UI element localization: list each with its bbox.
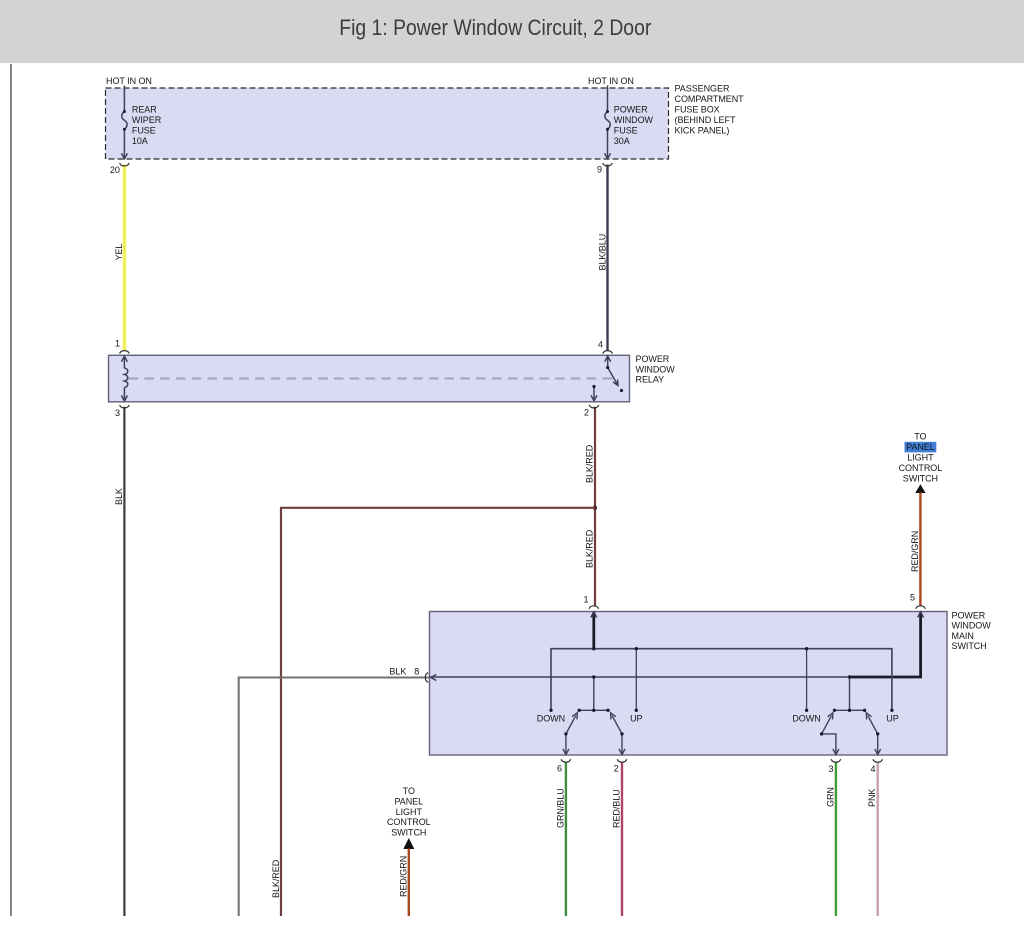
- svg-text:4: 4: [598, 340, 603, 350]
- svg-text:4: 4: [871, 764, 876, 774]
- svg-text:GRN/BLU: GRN/BLU: [555, 788, 565, 828]
- svg-text:SWITCH: SWITCH: [391, 827, 426, 837]
- svg-text:SWITCH: SWITCH: [903, 473, 938, 483]
- svg-text:KICK PANEL): KICK PANEL): [675, 126, 730, 136]
- svg-text:POWER: POWER: [636, 354, 670, 364]
- svg-text:BLK/RED: BLK/RED: [585, 444, 595, 483]
- svg-text:TO: TO: [403, 786, 415, 796]
- svg-text:RED/BLU: RED/BLU: [612, 789, 622, 828]
- svg-text:PNK: PNK: [867, 789, 877, 807]
- svg-text:3: 3: [115, 408, 120, 418]
- svg-text:WIPER: WIPER: [132, 115, 162, 125]
- svg-text:TO: TO: [914, 431, 926, 441]
- svg-text:GRN: GRN: [825, 787, 835, 807]
- svg-text:1: 1: [115, 339, 120, 349]
- svg-text:2: 2: [584, 408, 589, 418]
- svg-text:HOT IN ON: HOT IN ON: [588, 76, 634, 86]
- svg-text:BLK/BLU: BLK/BLU: [598, 234, 608, 271]
- svg-text:CONTROL: CONTROL: [387, 817, 431, 827]
- svg-text:LIGHT: LIGHT: [907, 452, 934, 462]
- svg-text:COMPARTMENT: COMPARTMENT: [675, 94, 745, 104]
- svg-text:BLK: BLK: [114, 488, 124, 505]
- svg-text:5: 5: [910, 593, 915, 603]
- svg-text:CONTROL: CONTROL: [899, 463, 943, 473]
- svg-text:SWITCH: SWITCH: [952, 641, 987, 651]
- svg-text:PANEL: PANEL: [394, 797, 423, 807]
- svg-text:20: 20: [110, 165, 120, 175]
- svg-text:LIGHT: LIGHT: [396, 807, 423, 817]
- svg-text:RED/GRN: RED/GRN: [398, 856, 408, 897]
- svg-text:2: 2: [614, 764, 619, 774]
- svg-text:RELAY: RELAY: [636, 375, 665, 385]
- svg-text:FUSE BOX: FUSE BOX: [675, 105, 720, 115]
- svg-text:PANEL: PANEL: [906, 442, 935, 452]
- svg-text:RED/GRN: RED/GRN: [910, 531, 920, 572]
- svg-text:(BEHIND LEFT: (BEHIND LEFT: [675, 115, 736, 125]
- svg-text:POWER: POWER: [614, 104, 648, 114]
- svg-text:FUSE: FUSE: [614, 125, 638, 135]
- svg-text:BLK: BLK: [389, 667, 406, 677]
- svg-text:PASSENGER: PASSENGER: [675, 84, 730, 94]
- svg-text:MAIN: MAIN: [952, 631, 974, 641]
- svg-text:REAR: REAR: [132, 104, 157, 114]
- svg-text:DOWN: DOWN: [792, 714, 820, 724]
- svg-text:BLK/RED: BLK/RED: [585, 529, 595, 568]
- svg-text:10A: 10A: [132, 136, 148, 146]
- svg-text:8: 8: [414, 667, 419, 677]
- svg-text:POWER: POWER: [952, 610, 986, 620]
- svg-text:UP: UP: [886, 714, 898, 724]
- svg-text:DOWN: DOWN: [537, 714, 565, 724]
- svg-text:6: 6: [557, 764, 562, 774]
- svg-text:YEL: YEL: [114, 244, 124, 261]
- svg-text:WINDOW: WINDOW: [614, 115, 654, 125]
- svg-text:UP: UP: [630, 714, 642, 724]
- svg-text:WINDOW: WINDOW: [636, 364, 676, 374]
- svg-text:3: 3: [829, 764, 834, 774]
- svg-text:30A: 30A: [614, 136, 630, 146]
- svg-text:1: 1: [584, 595, 589, 605]
- svg-text:WINDOW: WINDOW: [952, 621, 992, 631]
- svg-text:HOT IN ON: HOT IN ON: [106, 76, 152, 86]
- svg-text:9: 9: [597, 165, 602, 175]
- svg-text:BLK/RED: BLK/RED: [271, 859, 281, 898]
- svg-text:FUSE: FUSE: [132, 125, 156, 135]
